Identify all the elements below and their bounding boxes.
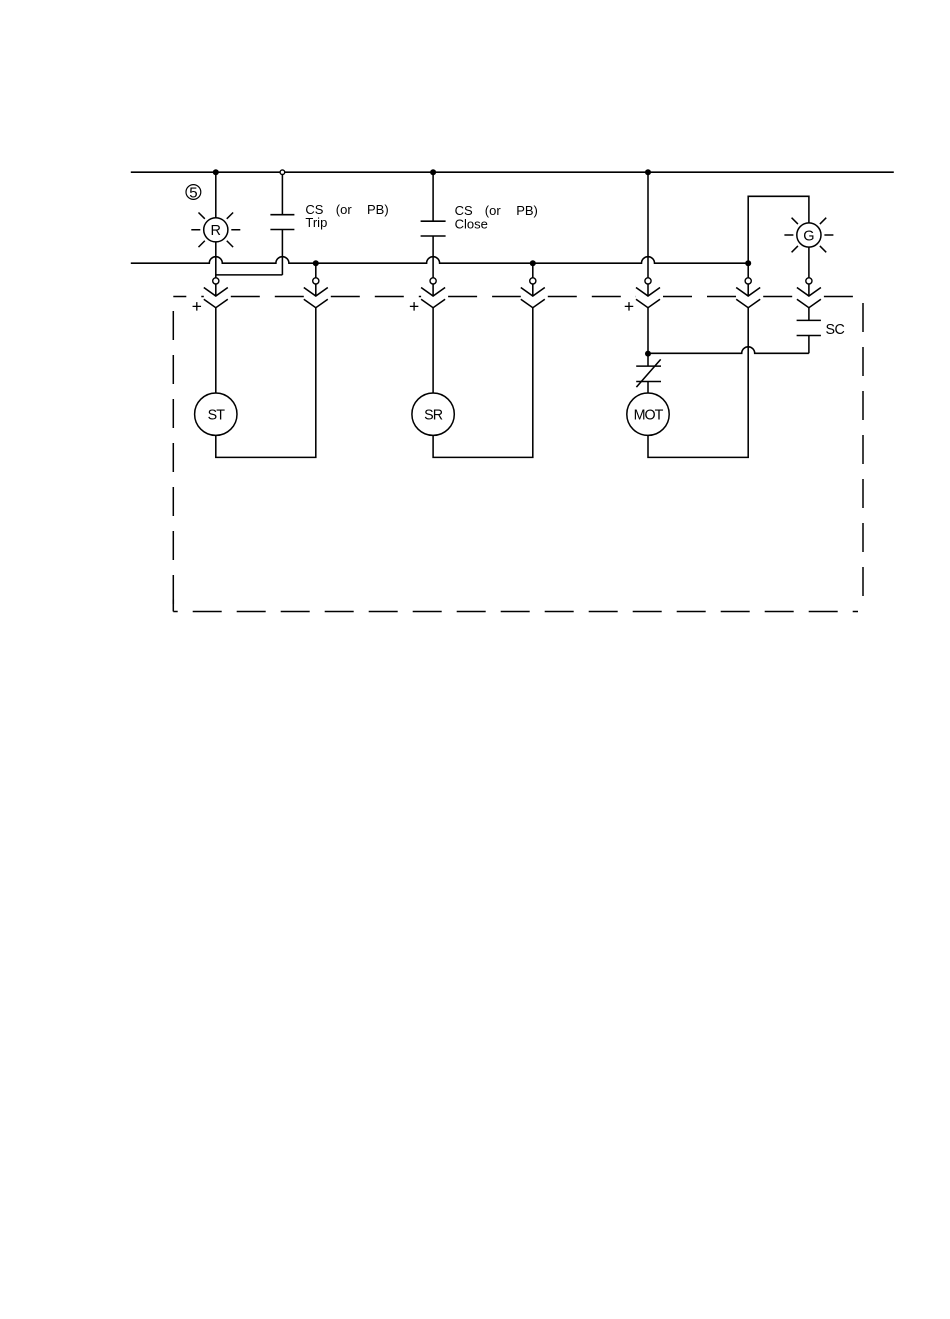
svg-text:G: G <box>803 228 814 244</box>
svg-text:PB): PB) <box>516 203 538 218</box>
svg-text:5: 5 <box>189 184 197 201</box>
svg-text:SC: SC <box>826 322 845 338</box>
svg-text:MOT: MOT <box>634 407 664 423</box>
svg-text:SR: SR <box>424 407 443 423</box>
svg-text:Close: Close <box>455 216 488 231</box>
svg-text:Trip: Trip <box>305 215 327 230</box>
svg-text:ST: ST <box>208 407 226 423</box>
svg-text:R: R <box>211 223 221 239</box>
svg-text:PB): PB) <box>367 202 389 217</box>
svg-text:(or: (or <box>336 202 353 217</box>
